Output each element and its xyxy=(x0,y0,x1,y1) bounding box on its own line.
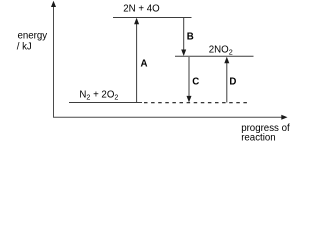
svg-text:2N + 4O: 2N + 4O xyxy=(123,3,160,14)
arrow D (up from dashed baseline to 2NO2 level) xyxy=(224,57,229,103)
arrow A (up from N2+2O2 level to 2N+4O level) xyxy=(134,18,139,103)
arrow C (down from 2NO2 level to dashed baseline) xyxy=(187,57,192,102)
energy level: N2 + 2O2 (bottom, solid part) xyxy=(69,102,142,104)
dashed extension of N2 + 2O2 level xyxy=(144,102,250,104)
energy level: 2N + 4O (top) xyxy=(113,17,192,19)
svg-text:reaction: reaction xyxy=(241,133,275,144)
svg-text:/ kJ: / kJ xyxy=(17,42,32,53)
svg-text:A: A xyxy=(141,58,148,69)
energy level: 2NO2 (middle) xyxy=(175,55,254,57)
axis label: progress of reaction xyxy=(241,123,290,144)
x-axis (progress of reaction axis) xyxy=(53,115,288,120)
arrow B (down from 2N+4O level to 2NO2 level) xyxy=(181,18,186,56)
svg-text:energy: energy xyxy=(18,30,48,41)
svg-text:D: D xyxy=(229,76,236,87)
y-axis (energy axis) xyxy=(51,1,56,118)
svg-text:B: B xyxy=(187,31,194,42)
axis label: energy / kJ xyxy=(17,30,48,52)
svg-text:C: C xyxy=(192,77,199,88)
svg-text:N2 + 2O2: N2 + 2O2 xyxy=(79,90,118,102)
